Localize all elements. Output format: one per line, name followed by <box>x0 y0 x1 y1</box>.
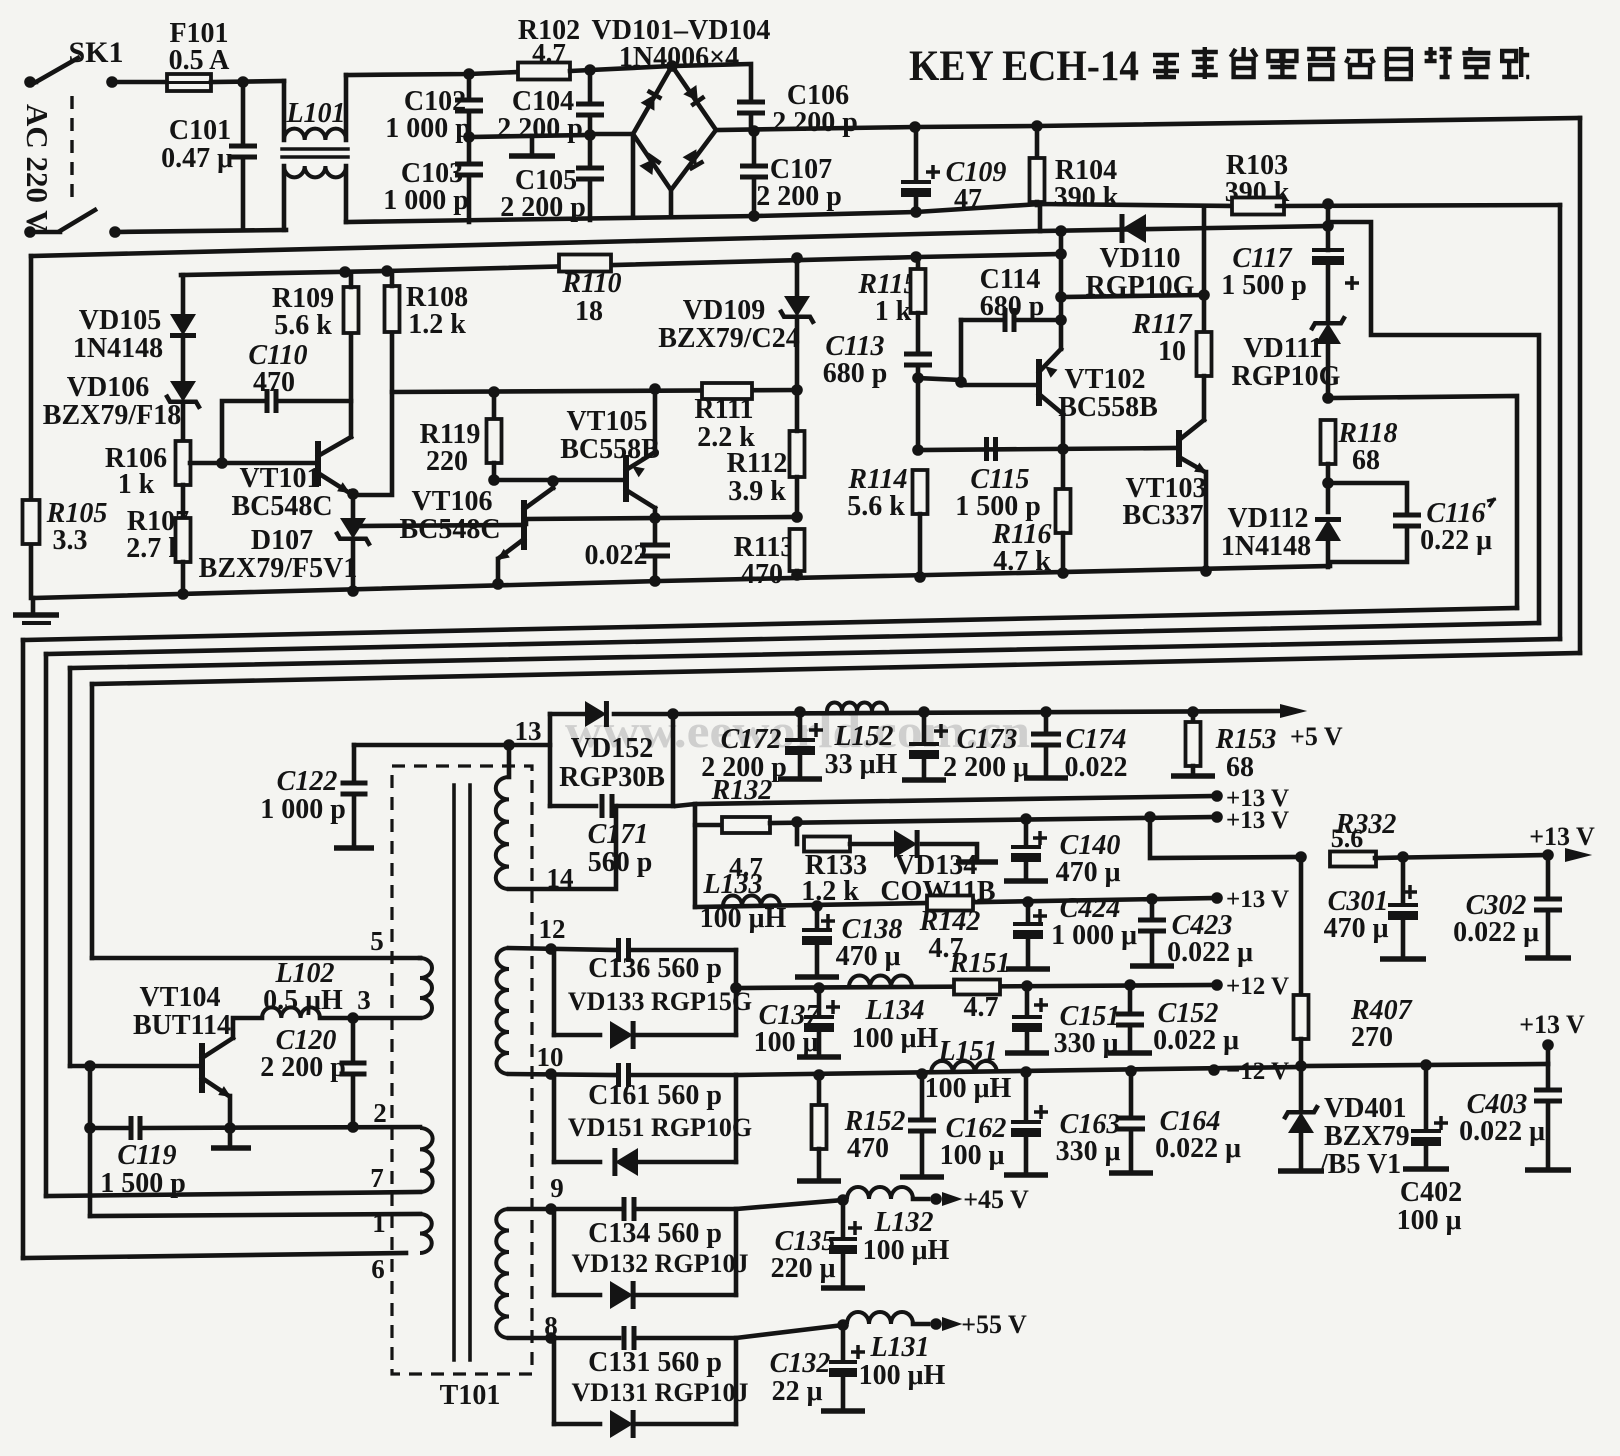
svg-text:L131: L131 <box>869 1332 929 1363</box>
svg-text:C173: C173 <box>957 724 1018 755</box>
svg-text:BZX79/F5V1: BZX79/F5V1 <box>199 553 358 584</box>
wire +13V row2 <box>770 817 1217 823</box>
svg-text:18: 18 <box>575 296 603 327</box>
diode VD151 <box>615 1148 638 1176</box>
wire VD110 line to bus2 via right step <box>1328 222 1539 623</box>
svg-text:0.022: 0.022 <box>1065 752 1128 783</box>
transformer T101 shield box <box>392 766 532 1374</box>
capacitor C135 <box>848 1221 862 1235</box>
svg-text:220 μ: 220 μ <box>771 1253 836 1284</box>
wire +12V row <box>736 985 1217 988</box>
svg-text:+5 V: +5 V <box>1290 722 1343 751</box>
emitter chassis stub <box>228 1128 233 1145</box>
diode VD152 <box>585 701 606 727</box>
wire -12V row <box>736 1067 1301 1075</box>
svg-text:13: 13 <box>515 716 542 746</box>
wire VT105 emitter riser <box>653 389 658 452</box>
svg-text:6: 6 <box>371 1254 385 1284</box>
svg-text:0.5 A: 0.5 A <box>169 45 230 76</box>
svg-text:C122: C122 <box>277 766 338 797</box>
svg-text:1 000 p: 1 000 p <box>385 113 471 144</box>
svg-text:0.022 μ: 0.022 μ <box>1155 1133 1241 1164</box>
svg-text:R132: R132 <box>711 775 773 806</box>
svg-text:1.2 k: 1.2 k <box>408 309 466 340</box>
svg-text:0.47 μ: 0.47 μ <box>161 143 233 174</box>
svg-text:560 p: 560 p <box>588 847 653 878</box>
svg-text:L101: L101 <box>285 98 345 129</box>
wire +13V row3 <box>695 898 1217 907</box>
svg-text:10: 10 <box>1158 336 1186 367</box>
svg-text:100 μH: 100 μH <box>700 903 787 934</box>
wire return rail to R103 <box>346 204 1240 222</box>
svg-text:BZX79: BZX79 <box>1324 1121 1410 1152</box>
svg-text:+13 V: +13 V <box>1226 807 1289 834</box>
wire pin12 line <box>509 948 616 950</box>
wire VT105 base line <box>494 478 624 483</box>
svg-text:VD111: VD111 <box>1243 333 1322 364</box>
capacitor C151 <box>1034 998 1048 1012</box>
wire VT106 emitter down <box>496 559 501 584</box>
svg-text:12: 12 <box>539 914 566 944</box>
svg-text:VD132 RGP10J: VD132 RGP10J <box>572 1249 749 1278</box>
capacitor C173 <box>934 724 948 738</box>
svg-text:100 μ: 100 μ <box>1397 1205 1462 1236</box>
wire VT105 collector to line E <box>653 508 658 519</box>
svg-text:C132: C132 <box>770 1348 831 1379</box>
svg-text:10: 10 <box>537 1042 564 1072</box>
ground rail <box>33 566 1330 598</box>
svg-text:VD105: VD105 <box>79 305 161 336</box>
wire to R332 <box>1150 817 1301 858</box>
svg-text:100 μH: 100 μH <box>863 1235 950 1266</box>
capacitor C132 <box>851 1345 865 1359</box>
wire pin1 line <box>90 1214 420 1216</box>
svg-text:VD109: VD109 <box>683 295 765 326</box>
wire R108 node line <box>392 390 797 392</box>
svg-text:100 μH: 100 μH <box>925 1073 1012 1104</box>
arrow +13V right <box>1565 848 1592 862</box>
wire +5V rail <box>673 711 1280 714</box>
svg-text:C136 560 p: C136 560 p <box>588 953 722 984</box>
svg-text:BZX79/F18: BZX79/F18 <box>43 400 181 431</box>
svg-text:R151: R151 <box>949 948 1011 979</box>
svg-text:C161 560 p: C161 560 p <box>588 1080 722 1111</box>
svg-text:470 μ: 470 μ <box>1324 913 1389 944</box>
wire pin6 line <box>23 1253 406 1258</box>
wire emitter to R108 <box>353 330 392 495</box>
svg-text:1 000 p: 1 000 p <box>260 794 346 825</box>
wire VT102 emitter bus <box>1059 231 1064 349</box>
wire line E <box>526 517 797 524</box>
svg-text:5: 5 <box>370 926 384 956</box>
capacitor C137 <box>826 1000 840 1014</box>
wire bridge top to C106 <box>672 64 751 102</box>
svg-text:+13 V: +13 V <box>1226 886 1289 913</box>
svg-text:C119: C119 <box>117 1140 176 1171</box>
svg-text:C174: C174 <box>1066 724 1127 755</box>
svg-text:68: 68 <box>1226 752 1254 783</box>
svg-text:VD110: VD110 <box>1100 243 1181 274</box>
winding 2-7 <box>420 1128 433 1192</box>
svg-text:C101: C101 <box>169 115 231 146</box>
svg-text:9: 9 <box>550 1173 564 1203</box>
wire collector to L102 <box>233 1018 262 1038</box>
svg-text:0.022 μ: 0.022 μ <box>1459 1116 1545 1147</box>
wire VT101 collector riser <box>349 333 354 437</box>
wire base node down <box>88 1066 93 1216</box>
svg-text:1 500 p: 1 500 p <box>955 491 1041 522</box>
winding 12-10 <box>496 948 509 1074</box>
wire pin14 to C171 <box>509 806 616 889</box>
svg-text:VT104: VT104 <box>140 982 221 1013</box>
svg-text:0.022: 0.022 <box>585 540 648 571</box>
svg-text:220: 220 <box>426 446 468 477</box>
svg-text:AC 220 V: AC 220 V <box>20 104 55 233</box>
svg-text:470 μ: 470 μ <box>836 941 901 972</box>
capacitor C138 <box>821 914 835 928</box>
svg-text:BC548C: BC548C <box>399 514 500 545</box>
+13V stub <box>1546 1046 1551 1064</box>
svg-text:390 k: 390 k <box>1054 182 1119 213</box>
svg-text:VT106: VT106 <box>412 486 493 517</box>
wire R110 line <box>181 254 1061 275</box>
wire VT102 base <box>961 383 1039 388</box>
wire VT101 emitter node <box>347 488 359 500</box>
wire bridge left vertex down <box>631 134 636 217</box>
svg-text:C402: C402 <box>1400 1177 1462 1208</box>
svg-text:5.6: 5.6 <box>1331 824 1364 853</box>
svg-text:BZX79/C24: BZX79/C24 <box>658 323 800 354</box>
svg-text:0.022 μ: 0.022 μ <box>1453 917 1539 948</box>
svg-text:68: 68 <box>1352 445 1380 476</box>
svg-text:100 μ: 100 μ <box>940 1140 1005 1171</box>
capacitor C109 <box>926 165 940 179</box>
svg-text:330 μ: 330 μ <box>1056 1136 1121 1167</box>
svg-text:BUT114: BUT114 <box>133 1010 231 1041</box>
wire +45V row <box>736 1200 843 1209</box>
wire C113 node to C114 loop <box>918 320 961 380</box>
svg-text:470: 470 <box>741 559 783 590</box>
svg-text:T101: T101 <box>440 1380 501 1411</box>
wire box left edge <box>29 256 34 598</box>
wire pin7 line <box>46 1192 420 1196</box>
svg-text:C131 560 p: C131 560 p <box>588 1347 722 1378</box>
svg-text:5.6 k: 5.6 k <box>274 310 332 341</box>
svg-text:BC337: BC337 <box>1123 500 1204 531</box>
svg-text:R153: R153 <box>1215 724 1277 755</box>
svg-text:1N4148: 1N4148 <box>73 333 163 364</box>
svg-text:VD152: VD152 <box>571 733 653 764</box>
svg-text:+13 V: +13 V <box>1529 822 1595 851</box>
svg-text:D107: D107 <box>251 525 313 556</box>
svg-text:VD106: VD106 <box>67 372 149 403</box>
svg-text:VT102: VT102 <box>1065 364 1146 395</box>
svg-text:+13 V: +13 V <box>1519 1010 1585 1039</box>
svg-text:2 200 μ: 2 200 μ <box>943 752 1029 783</box>
svg-text:VD401: VD401 <box>1324 1093 1406 1124</box>
svg-text:BC558B: BC558B <box>1058 392 1158 423</box>
wire R110 link junction) <box>1055 225 1067 237</box>
wire bridge bottom vertex down <box>669 190 674 217</box>
wire bus line 2 <box>46 623 1539 654</box>
diode VD132 <box>610 1281 633 1309</box>
svg-text:SK1: SK1 <box>68 36 123 69</box>
title CJK text <box>1153 47 1529 79</box>
svg-text:VD151 RGP10G: VD151 RGP10G <box>568 1113 752 1142</box>
wire pin8 line <box>509 1336 619 1341</box>
svg-text:100 μH: 100 μH <box>852 1023 939 1054</box>
svg-text:0.022 μ: 0.022 μ <box>1167 937 1253 968</box>
capacitor C424 <box>1033 909 1047 923</box>
wire top rail <box>346 72 518 75</box>
svg-text:0.22 μ: 0.22 μ <box>1420 525 1492 556</box>
wire -12V node line right <box>1301 1064 1548 1066</box>
svg-text:VT105: VT105 <box>567 406 648 437</box>
wire right edge verticals <box>1558 205 1563 639</box>
wire VT101 base <box>190 461 316 466</box>
wire cap midpoints <box>469 135 590 137</box>
svg-text:2: 2 <box>373 1098 387 1128</box>
wire R104 foot jog to VD110 line <box>1038 204 1043 231</box>
svg-text:470 μ: 470 μ <box>1056 857 1121 888</box>
wire box top line A <box>31 231 1040 256</box>
svg-text:1 k: 1 k <box>118 469 155 500</box>
svg-text:L152: L152 <box>833 721 893 752</box>
svg-text:2 200 p: 2 200 p <box>260 1052 346 1083</box>
wire bus line 1 <box>23 608 1517 640</box>
svg-text:1 000 p: 1 000 p <box>383 185 469 216</box>
svg-text:1N4148: 1N4148 <box>1221 531 1311 562</box>
svg-text:33 μH: 33 μH <box>825 749 898 780</box>
svg-text:1 500 p: 1 500 p <box>1221 270 1307 301</box>
svg-text:47: 47 <box>954 184 982 215</box>
wire pin5 line <box>92 956 420 961</box>
svg-text:3.3: 3.3 <box>53 525 88 556</box>
wire switch to fuse <box>106 76 118 88</box>
wire VT102 collector down <box>1061 414 1066 449</box>
svg-text:KEY ECH-14: KEY ECH-14 <box>909 43 1139 90</box>
capacitor C301 <box>1403 885 1417 899</box>
svg-text:3.9 k: 3.9 k <box>728 476 786 507</box>
winding 1-6 <box>420 1214 432 1253</box>
svg-text:+55 V: +55 V <box>961 1310 1027 1339</box>
svg-text:4.7: 4.7 <box>964 992 999 1023</box>
svg-text:270: 270 <box>1351 1022 1393 1053</box>
wire pin9 line <box>509 1207 621 1212</box>
svg-text:5.6 k: 5.6 k <box>847 491 905 522</box>
svg-text:0.022 μ: 0.022 μ <box>1153 1025 1239 1056</box>
wire emitter bus to R117 riser <box>1061 207 1204 297</box>
svg-text:+45 V: +45 V <box>963 1185 1029 1214</box>
wire R118 node to bus1 <box>1328 396 1517 608</box>
svg-text:VD131 RGP10J: VD131 RGP10J <box>572 1378 749 1407</box>
svg-text:470: 470 <box>847 1133 889 1164</box>
svg-text:BC548C: BC548C <box>231 491 332 522</box>
winding 5-3 <box>420 958 432 1018</box>
svg-text:2 200 p: 2 200 p <box>772 107 858 138</box>
svg-text:4.7 k: 4.7 k <box>993 546 1051 577</box>
svg-text:RGP30B: RGP30B <box>559 762 665 793</box>
wire pin13 line <box>354 743 550 748</box>
svg-text:VD112: VD112 <box>1228 503 1309 534</box>
wire +55V row <box>736 1325 843 1338</box>
wire C116 loop <box>1328 483 1407 515</box>
svg-text:1 000 μ: 1 000 μ <box>1051 920 1137 951</box>
winding 13-14 <box>496 777 509 889</box>
wire DC+ rail <box>716 118 1580 130</box>
svg-text:2 200 p: 2 200 p <box>497 113 583 144</box>
transformer core <box>452 785 456 1360</box>
wire bus line 3 <box>70 639 1560 668</box>
arrow +5V <box>1280 704 1307 718</box>
wire VT104 base line <box>70 1064 200 1069</box>
wire VT104 emitter <box>228 1096 233 1128</box>
diode VD133 <box>610 1021 633 1049</box>
svg-text:7: 7 <box>370 1163 384 1193</box>
wire bus line 4 <box>92 653 1580 684</box>
wire to bridge left vertex <box>590 132 633 137</box>
capacitor C140 <box>1033 831 1047 845</box>
svg-text:/B5 V1: /B5 V1 <box>1319 1149 1401 1180</box>
svg-text:L134: L134 <box>864 995 924 1026</box>
ground symbol <box>31 598 36 612</box>
svg-text:1 k: 1 k <box>875 296 912 327</box>
svg-text:680 p: 680 p <box>823 358 888 389</box>
wire +13V row1 <box>676 804 695 907</box>
svg-text:L132: L132 <box>873 1207 933 1238</box>
svg-text:3: 3 <box>357 985 371 1015</box>
winding 9-8 <box>496 1209 509 1338</box>
svg-text:C172: C172 <box>721 724 782 755</box>
svg-text:1N4006×4: 1N4006×4 <box>619 42 739 73</box>
chassis ground stub <box>530 136 535 153</box>
svg-text:−12 V: −12 V <box>1226 1058 1289 1085</box>
svg-text:100 μH: 100 μH <box>859 1360 946 1391</box>
svg-text:RGP10G: RGP10G <box>1232 361 1341 392</box>
capacitor C163 <box>1034 1105 1048 1119</box>
svg-text:VT101: VT101 <box>240 463 321 494</box>
svg-text:R112: R112 <box>727 448 788 479</box>
svg-text:2 200 p: 2 200 p <box>756 181 842 212</box>
svg-text:VD133 RGP15G: VD133 RGP15G <box>568 987 752 1016</box>
wire pin10 line <box>509 1074 616 1075</box>
svg-text:22 μ: 22 μ <box>772 1376 823 1407</box>
capacitor C402 <box>1434 1116 1448 1130</box>
wire VT103 base line <box>918 448 1177 450</box>
svg-text:C134 560 p: C134 560 p <box>588 1218 722 1249</box>
diode VD131 <box>610 1410 633 1438</box>
svg-text:+12 V: +12 V <box>1226 973 1289 1000</box>
